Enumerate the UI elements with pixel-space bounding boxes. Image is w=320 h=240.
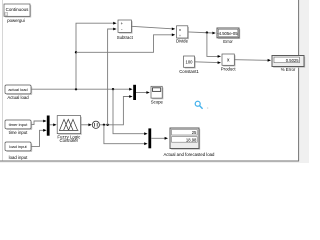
canvas left edge — [2, 0, 4, 161]
svg-text:Scope: Scope — [151, 99, 164, 104]
svg-text:Product: Product — [221, 66, 237, 71]
scrollbar bottom track — [0, 161, 309, 163]
block Subtract — [117, 20, 134, 40]
wire forecast main line — [100, 95, 133, 125]
svg-text:Error: Error — [223, 39, 233, 44]
svg-text:18.98: 18.98 — [186, 137, 197, 142]
svg-text:load input: load input — [9, 155, 28, 160]
svg-text:Continuous: Continuous — [6, 7, 30, 12]
wire forecast to subtract minus — [108, 28, 117, 125]
cursor magnifier — [195, 101, 208, 108]
wire load input to mux1 — [31, 129, 47, 147]
svg-text:Constant1: Constant1 — [179, 69, 199, 74]
wire actual to subtract plus — [76, 22, 117, 89]
display Error — [217, 28, 240, 44]
svg-text:Actual load: Actual load — [7, 95, 29, 100]
wire divide branch to product — [207, 33, 221, 58]
svg-text:x: x — [179, 27, 181, 32]
wire timer input to mux1 — [31, 120, 47, 125]
node divide output branch — [206, 31, 208, 33]
svg-text:100: 100 — [186, 59, 194, 64]
source block load input — [5, 142, 32, 160]
display Actual and forecasted load — [164, 128, 215, 157]
svg-text:actual load: actual load — [8, 87, 27, 92]
wire actual to display mux in1 — [113, 89, 148, 135]
block powergui — [4, 4, 31, 23]
svg-text:Divide: Divide — [176, 38, 189, 43]
wire constant1 to product — [195, 61, 222, 64]
scrollbar right track — [299, 0, 309, 163]
wire display mux to display — [151, 137, 168, 140]
block Fuzzy Logic Controller U1 — [57, 116, 82, 144]
source block timer input — [5, 120, 32, 135]
block Product — [221, 54, 237, 71]
node actual branch B — [112, 88, 114, 90]
block Divide — [176, 26, 189, 44]
block Scope — [151, 86, 164, 104]
wire forecast to display mux in2 — [104, 125, 148, 145]
display percent Error — [272, 56, 305, 73]
block Constant1 — [179, 56, 199, 74]
mux Mux1 — [47, 116, 50, 136]
svg-text:time input: time input — [9, 130, 28, 135]
svg-text:Subtract: Subtract — [117, 35, 134, 40]
mux display-mux — [148, 128, 151, 148]
wire scope mux to scope — [136, 91, 150, 94]
node forecast branch A — [103, 124, 105, 126]
svg-text:load input: load input — [9, 144, 27, 149]
svg-text:powergui: powergui — [7, 18, 24, 23]
node forecast branch B — [106, 124, 108, 126]
svg-text:timer input: timer input — [9, 122, 29, 127]
svg-text:-4.505e-05: -4.505e-05 — [217, 31, 238, 36]
svg-text:% Error: % Error — [281, 67, 296, 72]
svg-text:25: 25 — [192, 130, 197, 135]
wire actual load main line — [31, 88, 133, 91]
svg-text:Controller: Controller — [59, 138, 78, 143]
svg-text:0.5025: 0.5025 — [286, 58, 299, 63]
round block after fuzzy controller — [92, 121, 99, 128]
wire fuzzy controller to rate block — [81, 123, 92, 126]
wire mux1 to fuzzy controller — [50, 123, 57, 126]
wire product to percent error display — [234, 59, 271, 62]
node actual to divide branch — [75, 51, 77, 53]
node actual branch A — [75, 88, 77, 90]
mux scope-mux — [133, 85, 136, 100]
source block actual load — [5, 85, 32, 100]
wire divide to error display — [188, 32, 216, 35]
wire actual to divide denominator — [76, 33, 175, 52]
svg-text:Actual and forecasted load: Actual and forecasted load — [164, 152, 215, 157]
wire subtract to divide — [132, 26, 176, 30]
